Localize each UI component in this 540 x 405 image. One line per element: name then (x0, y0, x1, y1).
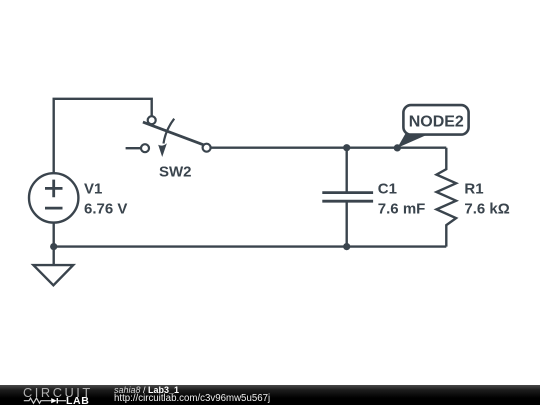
CircuitLab logo (0, 385, 100, 405)
svg-text:R1: R1 (464, 181, 483, 198)
SW2 open throw lead (126, 147, 141, 149)
resistor R1 (437, 148, 457, 247)
wire bottom rail (54, 245, 447, 247)
wire V1 bottom to ground (53, 223, 55, 266)
svg-text:6.76 V: 6.76 V (84, 201, 127, 218)
junction dot at C1 top (343, 144, 350, 151)
svg-text:LAB: LAB (66, 395, 89, 405)
junction dot at V1 bottom (50, 243, 57, 250)
svg-text:V1: V1 (84, 181, 102, 198)
SW2 blade (143, 122, 204, 145)
voltage source V1 (29, 173, 78, 222)
svg-text:C1: C1 (378, 181, 397, 198)
svg-text:NODE2: NODE2 (409, 114, 464, 131)
svg-text:7.6 kΩ: 7.6 kΩ (464, 201, 509, 218)
SW2 actuation arrow (164, 119, 175, 144)
SW2 common terminal (right) (203, 144, 211, 152)
wire SW2 common to R1 top corner (211, 146, 447, 148)
node NODE2 flag (394, 105, 469, 151)
junction dot at C1 bottom (343, 243, 350, 250)
SW2 throw terminal (top) (148, 116, 156, 124)
ground (33, 265, 73, 285)
switch SW2 (126, 116, 211, 157)
capacitor C1 (322, 148, 373, 247)
SW2 open throw terminal (141, 144, 149, 152)
svg-text:SW2: SW2 (159, 164, 192, 181)
footer bar (0, 385, 540, 405)
wire V1 top to SW2 top terminal (54, 99, 152, 174)
title text (114, 385, 179, 395)
svg-text:7.6 mF: 7.6 mF (378, 201, 426, 218)
